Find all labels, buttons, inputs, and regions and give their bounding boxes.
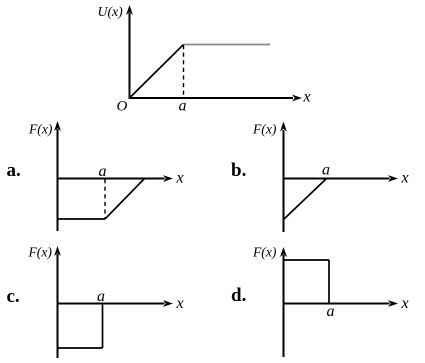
option a x-axis	[57, 178, 165, 180]
option b y-axis arrowhead	[280, 122, 287, 132]
U(x) ramp segment	[130, 45, 184, 98]
option c x-axis	[57, 303, 165, 305]
svg-text:x: x	[176, 295, 184, 312]
option d rectangle right side	[328, 260, 330, 304]
option d x-axis arrowhead	[388, 300, 398, 307]
svg-text:x: x	[401, 170, 409, 187]
svg-text:x: x	[401, 295, 409, 312]
svg-text:a: a	[322, 162, 330, 179]
option a rising diagonal segment	[105, 179, 145, 220]
svg-text:a.: a.	[7, 160, 21, 181]
option c rectangle right side	[102, 304, 104, 349]
U(x) graph y-axis	[129, 13, 131, 99]
svg-text:x: x	[176, 170, 184, 187]
U(x) graph x-axis arrowhead	[292, 95, 302, 102]
option b y-axis	[283, 130, 285, 232]
svg-text:d.: d.	[231, 285, 246, 306]
svg-text:O: O	[117, 99, 128, 115]
option c rectangle bottom side	[58, 347, 103, 349]
option a y-axis	[57, 129, 59, 231]
option d rectangle top side	[284, 259, 330, 261]
svg-text:c.: c.	[7, 286, 20, 307]
option a dashed line at x=a	[104, 179, 106, 219]
option b diagonal segment	[284, 179, 327, 220]
option b x-axis	[283, 178, 390, 180]
svg-text:a: a	[179, 98, 187, 115]
option c y-axis	[57, 254, 59, 358]
option d y-axis arrowhead	[280, 247, 287, 257]
U(x) plateau segment (gray)	[184, 44, 271, 46]
svg-text:F(x): F(x)	[28, 122, 53, 138]
option b x-axis arrowhead	[388, 175, 398, 182]
svg-text:b.: b.	[231, 160, 246, 181]
option a x-axis arrowhead	[163, 175, 173, 182]
svg-text:U(x): U(x)	[98, 4, 124, 20]
option a y-axis arrowhead	[54, 121, 61, 131]
svg-text:F(x): F(x)	[252, 122, 277, 138]
svg-text:x: x	[303, 89, 311, 106]
dashed line at x=a on U(x) graph	[183, 45, 185, 97]
svg-text:F(x): F(x)	[28, 245, 53, 261]
option c x-axis arrowhead	[163, 300, 173, 307]
U(x) graph y-axis arrowhead	[126, 5, 133, 15]
svg-text:a: a	[97, 288, 105, 305]
U(x) graph x-axis	[129, 97, 294, 99]
svg-text:F(x): F(x)	[252, 245, 277, 261]
option a negative constant segment	[58, 218, 106, 220]
option c y-axis arrowhead	[54, 246, 61, 256]
svg-text:a: a	[99, 163, 107, 180]
option d x-axis	[283, 303, 390, 305]
svg-text:a: a	[327, 303, 335, 320]
option d y-axis	[283, 255, 285, 357]
